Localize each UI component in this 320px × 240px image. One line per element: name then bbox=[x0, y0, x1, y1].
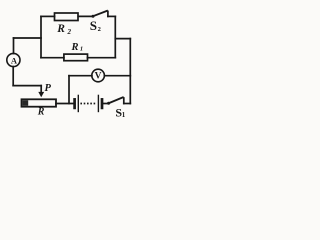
label R2 bbox=[56, 23, 71, 36]
switch S2 lever bbox=[93, 11, 107, 16]
wire voltmeter branch vertical bbox=[68, 76, 70, 104]
wire R1 branch left bbox=[41, 57, 64, 59]
wire rheostat to battery bbox=[56, 103, 73, 105]
wire ammeter tee horizontal bbox=[14, 37, 42, 39]
svg-text:2: 2 bbox=[67, 28, 72, 36]
wire voltmeter left lead bbox=[69, 75, 92, 77]
rheostat R body bbox=[22, 99, 57, 106]
switch S1 pivot bbox=[107, 102, 110, 105]
wiper arrow head bbox=[38, 92, 44, 97]
ammeter A bbox=[7, 53, 20, 66]
svg-text:P: P bbox=[45, 83, 52, 94]
battery cell 1 short thick plate bbox=[73, 99, 76, 108]
svg-text:V: V bbox=[95, 72, 102, 82]
battery cell 2 short thick plate bbox=[101, 99, 104, 108]
svg-text:1: 1 bbox=[122, 111, 126, 119]
wire ammeter bottom lead bbox=[12, 67, 14, 86]
resistor R1 bbox=[64, 54, 88, 61]
svg-text:1: 1 bbox=[80, 45, 83, 52]
label S1 bbox=[115, 105, 125, 119]
resistor R2 bbox=[55, 13, 79, 21]
wire right parallel-node vertical bbox=[114, 16, 116, 57]
label R1 bbox=[71, 42, 84, 53]
wire left parallel-node vertical bbox=[40, 16, 42, 57]
switch S2 contact bbox=[107, 11, 109, 16]
svg-text:R: R bbox=[56, 23, 65, 35]
switch S1 lever bbox=[109, 97, 123, 103]
wire R2 to switch S2 bbox=[78, 15, 93, 17]
wire R1 branch right bbox=[88, 57, 116, 59]
wire outer right rail bbox=[129, 39, 131, 104]
svg-text:2: 2 bbox=[98, 26, 101, 33]
rheostat dark left end bbox=[22, 100, 28, 106]
voltmeter V bbox=[92, 69, 105, 82]
battery dashed link wire bbox=[80, 103, 96, 105]
wire battery to switch S1 bbox=[103, 103, 108, 105]
svg-text:A: A bbox=[11, 56, 18, 66]
wire ammeter top lead bbox=[13, 38, 15, 54]
switch S2 pivot bbox=[92, 15, 95, 18]
svg-text:R: R bbox=[71, 42, 79, 53]
switch S1 contact bbox=[123, 98, 125, 104]
svg-text:R: R bbox=[37, 107, 45, 118]
wire top branch left segment bbox=[41, 15, 55, 17]
wire voltmeter right lead bbox=[104, 75, 130, 77]
label S2 bbox=[90, 18, 101, 33]
wire bottom-left horizontal bbox=[13, 85, 41, 87]
wire S2 to top-right corner bbox=[108, 15, 115, 17]
wire stub to outer right rail bbox=[115, 38, 130, 40]
wire S1 to bottom-right corner bbox=[124, 103, 131, 105]
wiper arrow shaft bbox=[40, 86, 42, 93]
battery cell 2 long thin plate bbox=[97, 95, 99, 111]
battery cell 1 long thin plate bbox=[77, 95, 79, 111]
svg-text:S: S bbox=[90, 18, 97, 33]
